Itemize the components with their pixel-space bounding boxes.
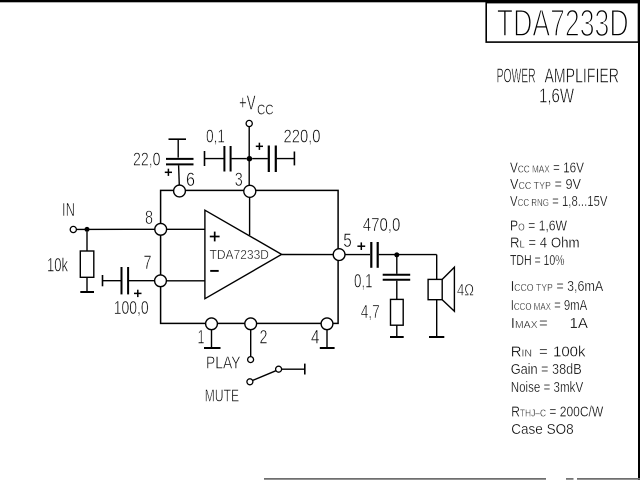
plus sign of 100,0 bbox=[134, 292, 142, 294]
title box bbox=[486, 3, 638, 43]
svg-text:CC: CC bbox=[257, 101, 274, 118]
MUTE switch lever bbox=[253, 371, 276, 381]
svg-text:4Ω: 4Ω bbox=[457, 280, 474, 299]
svg-text:TDA7233D: TDA7233D bbox=[210, 247, 270, 262]
svg-text:8: 8 bbox=[145, 208, 153, 229]
plus sign of 470,0 bbox=[357, 245, 365, 247]
svg-text:0,1: 0,1 bbox=[354, 272, 373, 293]
wire op-amp apex to pin5 bbox=[282, 254, 339, 256]
op-amp triangle bbox=[205, 210, 282, 299]
svg-text:10k: 10k bbox=[47, 255, 68, 276]
resistor R 10k bbox=[80, 251, 94, 277]
wire pin8 to op-amp bbox=[161, 228, 205, 230]
svg-text:1,6W: 1,6W bbox=[539, 86, 574, 108]
wire top-rail left end tick bbox=[204, 151, 206, 166]
right border line bbox=[638, 0, 640, 480]
wire pin3 to triangle bbox=[249, 191, 251, 235]
capacitor 100,0 plates bbox=[121, 267, 123, 294]
svg-text:PLAY: PLAY bbox=[206, 353, 241, 373]
pin 6 circle bbox=[174, 185, 186, 197]
wire MUTE right with end tick bbox=[282, 368, 305, 370]
svg-text:+V: +V bbox=[239, 92, 256, 115]
capacitor 220,0 bbox=[268, 146, 270, 173]
wire junction to C220,0 bbox=[252, 158, 268, 160]
op-amp plus input sign bbox=[210, 236, 220, 238]
IC box TDA7233D bbox=[161, 190, 339, 323]
speaker LS 4ohm body bbox=[428, 279, 442, 299]
pin 8 circle bbox=[155, 223, 167, 235]
plus sign of 22,0 bbox=[165, 171, 172, 173]
wire Vcc vertical bbox=[248, 127, 250, 186]
resistor 4,7 bbox=[391, 299, 404, 325]
svg-text:7: 7 bbox=[144, 253, 152, 274]
speaker cone bbox=[442, 267, 454, 311]
svg-text:5: 5 bbox=[343, 231, 352, 252]
wire pin2 down bbox=[250, 330, 252, 357]
svg-text:6: 6 bbox=[186, 170, 195, 191]
ground tick under 10k bbox=[80, 291, 94, 293]
wire pin1 down bbox=[211, 330, 213, 348]
svg-text:3: 3 bbox=[235, 170, 243, 191]
pin 1 circle bbox=[206, 318, 218, 330]
wire C220,0 right with end tick bbox=[277, 158, 294, 160]
wire C0,1 down to R4,7 bbox=[396, 281, 398, 300]
junction Vcc node bbox=[247, 156, 253, 162]
wire speaker down bbox=[436, 300, 438, 337]
wire R4,7 down bbox=[396, 325, 398, 337]
capacitor 22,0 top tick bbox=[169, 138, 187, 140]
wire C470,0 to speaker bbox=[379, 254, 437, 256]
wire C100,0 to pin7 bbox=[129, 280, 155, 282]
junction output node bbox=[394, 252, 399, 257]
junction input node bbox=[85, 227, 90, 232]
svg-text:4,7: 4,7 bbox=[361, 302, 380, 322]
+Vcc terminal bbox=[246, 120, 252, 126]
ground tick R4,7 bbox=[390, 336, 404, 338]
svg-text:IN: IN bbox=[62, 200, 75, 220]
wire C0,1 to junction bbox=[232, 158, 247, 160]
top border line bbox=[0, 0, 640, 2]
pin 7 circle bbox=[155, 275, 167, 287]
bottom partial gray line bbox=[264, 478, 640, 480]
svg-text:Gain = 38dB: Gain = 38dB bbox=[511, 361, 582, 378]
svg-text:MUTE: MUTE bbox=[205, 386, 240, 406]
wire input node down bbox=[86, 232, 88, 251]
pin 5 circle bbox=[333, 249, 345, 261]
MUTE switch left terminal bbox=[247, 379, 253, 385]
svg-text:TDA7233D: TDA7233D bbox=[497, 3, 629, 45]
MUTE switch right terminal bbox=[276, 366, 282, 372]
ground tick pin4 bbox=[320, 347, 335, 349]
svg-text:220,0: 220,0 bbox=[284, 126, 321, 146]
wire pin5 to C470,0 bbox=[345, 254, 370, 256]
svg-text:22,0: 22,0 bbox=[133, 149, 161, 169]
svg-text:Noise = 3mkV: Noise = 3mkV bbox=[511, 379, 584, 396]
IN terminal bbox=[70, 226, 76, 232]
svg-text:TDH = 10%: TDH = 10% bbox=[510, 252, 565, 269]
pin 3 circle bbox=[244, 185, 256, 197]
wire IN to pin8 bbox=[77, 228, 155, 230]
pin 4 circle bbox=[321, 318, 333, 330]
svg-text:Case SO8: Case SO8 bbox=[511, 421, 574, 438]
svg-text:100,0: 100,0 bbox=[114, 298, 149, 318]
pin 2 circle bbox=[245, 318, 257, 330]
svg-text:AMPLIFIER: AMPLIFIER bbox=[545, 65, 620, 87]
plus sign of 220,0 bbox=[256, 145, 263, 147]
wire 22,0 stem upper bbox=[177, 139, 179, 157]
ground tick pin1 bbox=[204, 347, 221, 349]
ground tick speaker bbox=[429, 336, 444, 338]
wire tick to C100,0 bbox=[103, 280, 121, 282]
capacitor 100,0 left tick bbox=[102, 275, 104, 286]
svg-text:4: 4 bbox=[311, 328, 320, 349]
op-amp minus sign bbox=[210, 270, 219, 272]
PLAY terminal bbox=[248, 357, 254, 363]
wire junction down to C0,1 bbox=[396, 257, 398, 274]
capacitor 470,0 bbox=[370, 242, 372, 268]
svg-text:2: 2 bbox=[260, 328, 268, 349]
wire pin7 to op-amp bbox=[161, 280, 205, 282]
capacitor 22,0 plates bbox=[166, 158, 194, 160]
svg-text:470,0: 470,0 bbox=[363, 215, 401, 235]
svg-text:1: 1 bbox=[198, 328, 205, 349]
svg-text:0,1: 0,1 bbox=[206, 126, 225, 146]
wire 22,0 stem lower bbox=[178, 165, 181, 185]
capacitor 0,1 (output) bbox=[383, 274, 411, 276]
wire 10k down bbox=[86, 277, 88, 291]
svg-text:POWER: POWER bbox=[497, 65, 536, 87]
capacitor 0,1 (supply) bbox=[223, 146, 225, 172]
wire down to speaker bbox=[436, 255, 438, 280]
wire top-rail to C 0,1 bbox=[205, 158, 224, 160]
wire pin4 down bbox=[326, 330, 328, 348]
